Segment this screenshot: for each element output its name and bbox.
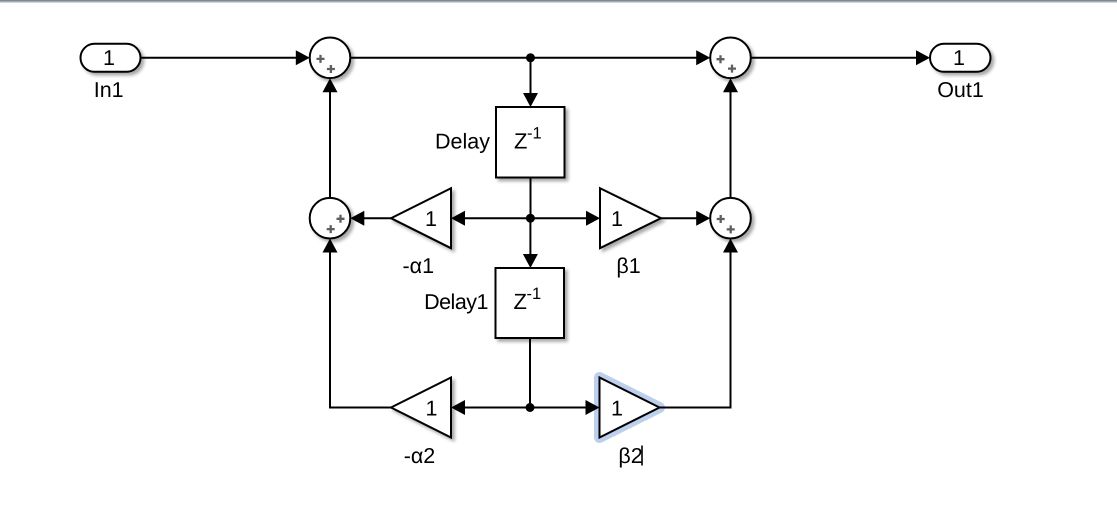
wire In1 to Sum1	[141, 50, 310, 65]
input port In1	[81, 44, 141, 102]
svg-text:In1: In1	[94, 78, 124, 102]
wire Sum4 to Sum2	[723, 78, 738, 198]
svg-text:1: 1	[103, 46, 115, 70]
wire node B to gain β1	[530, 211, 600, 226]
gain β1	[600, 188, 661, 278]
wire node A to Delay	[523, 58, 538, 107]
svg-text:-1: -1	[527, 285, 542, 303]
svg-text:1: 1	[425, 207, 437, 231]
sum Sum3	[310, 198, 351, 239]
delay block Delay (Z^-1)	[435, 107, 564, 178]
svg-text:-α1: -α1	[403, 254, 435, 278]
wire node B to Delay1	[523, 218, 538, 268]
wire Delay to node B	[530, 178, 532, 219]
svg-text:-1: -1	[527, 125, 542, 143]
svg-text:Delay: Delay	[435, 130, 490, 154]
gain -α2	[391, 378, 451, 469]
wire node B to gain -α1	[451, 211, 530, 226]
svg-text:Z: Z	[514, 129, 527, 154]
wire Delay1 to node C	[529, 338, 531, 408]
wire β1 to Sum4	[661, 211, 710, 226]
wire β2 to Sum4 (right and up)	[660, 239, 739, 408]
svg-text:Delay1: Delay1	[424, 290, 488, 314]
svg-text:1: 1	[426, 396, 438, 420]
wire -α1 to Sum3	[350, 211, 391, 226]
sum Sum4	[710, 198, 751, 239]
output port Out1	[930, 44, 991, 102]
gain -α1	[391, 188, 451, 278]
svg-text:1: 1	[611, 207, 623, 231]
node B (middle branch)	[526, 214, 535, 223]
node A (branch to Delay)	[526, 53, 535, 62]
sum Sum2	[710, 38, 751, 79]
svg-text:1: 1	[953, 46, 965, 70]
svg-text:β2: β2	[618, 444, 642, 468]
node C (bottom branch)	[526, 403, 535, 412]
sum Sum1	[310, 38, 351, 79]
svg-text:-α2: -α2	[404, 444, 436, 468]
wire Sum3 to Sum1	[323, 78, 338, 198]
gain β2 (selected)	[600, 378, 660, 469]
wire -α2 to Sum3 (left and up)	[323, 239, 392, 408]
svg-text:Z: Z	[514, 289, 527, 314]
wire Sum2 to Out1	[751, 50, 930, 65]
wire node C to gain -α2	[451, 400, 530, 415]
delay block Delay1 (Z^-1)	[424, 268, 564, 338]
wire node C to gain β2	[530, 400, 600, 415]
svg-text:β1: β1	[616, 254, 640, 278]
svg-text:Out1: Out1	[937, 78, 984, 102]
wire Sum1 to Sum2	[350, 50, 710, 65]
svg-text:1: 1	[611, 396, 623, 420]
